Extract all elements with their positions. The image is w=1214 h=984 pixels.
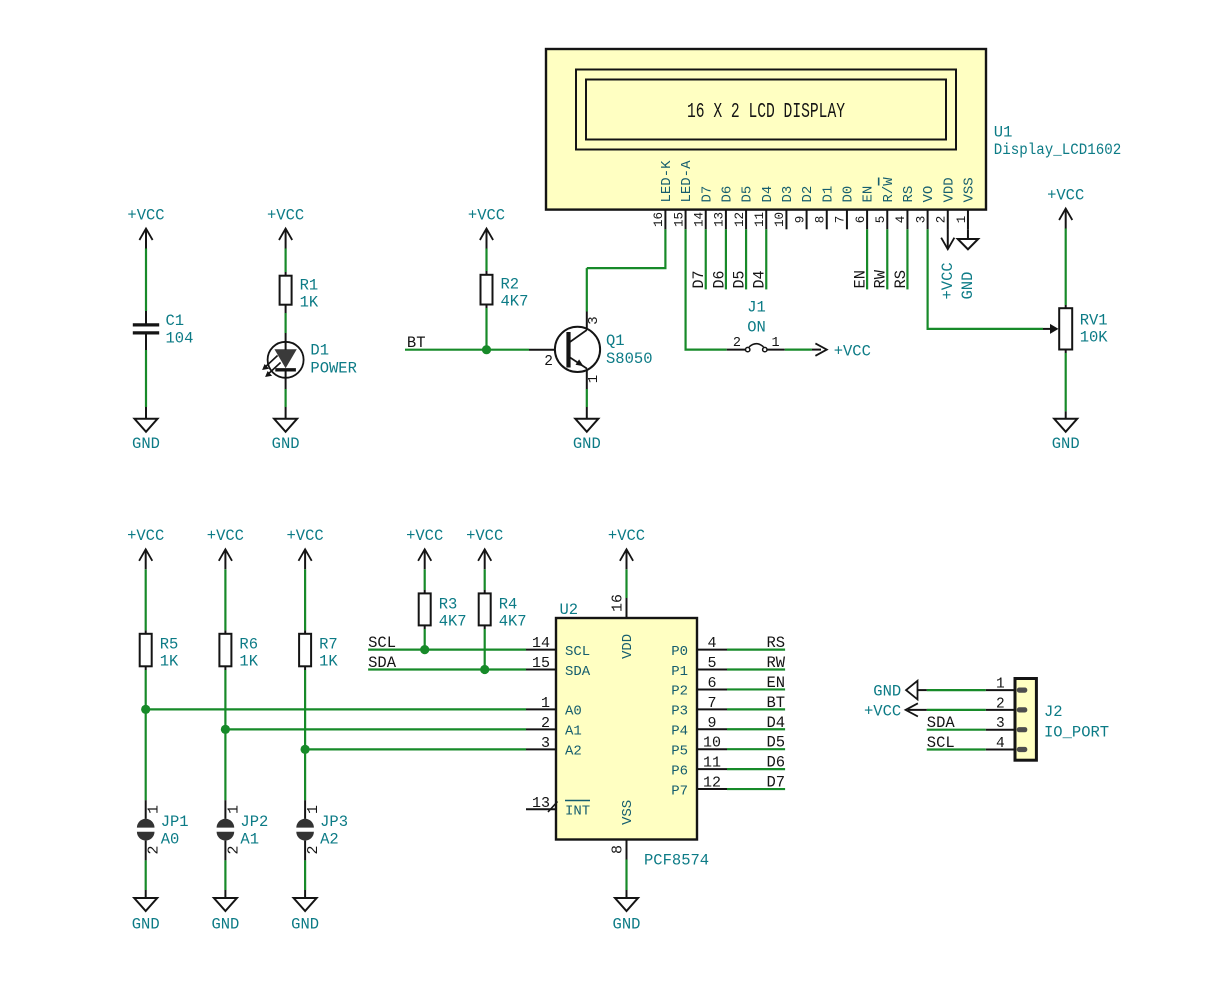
LCD pin 2 stub	[947, 210, 949, 230]
wire RW (pin5)	[886, 229, 888, 289]
svg-text:RS: RS	[892, 270, 910, 289]
svg-text:JP1: JP1	[161, 813, 189, 831]
wire R4 down	[484, 625, 486, 669]
svg-text:3: 3	[996, 716, 1005, 732]
svg-text:A2: A2	[565, 744, 582, 760]
junction R3	[420, 645, 429, 654]
pin number 4 (U2)	[707, 635, 716, 652]
pin name VDD (U2)	[620, 634, 636, 659]
svg-text:LED-A: LED-A	[679, 160, 695, 203]
svg-text:+VCC: +VCC	[608, 527, 645, 545]
net label D6	[710, 271, 728, 289]
pin name A2 (U2)	[565, 744, 582, 760]
svg-text:SDA: SDA	[565, 664, 591, 680]
wire D6 (U2 pin 11)	[727, 768, 785, 770]
wire A2	[305, 748, 526, 750]
svg-text:GND: GND	[272, 435, 300, 453]
svg-text:U2: U2	[560, 601, 579, 619]
svg-text:Q1: Q1	[606, 332, 625, 350]
pin number 13 (U2)	[532, 795, 550, 812]
wire R7 to JP3	[304, 666, 306, 819]
pin number 15 (U2)	[532, 655, 550, 672]
wire RS (U2 pin 4)	[727, 648, 785, 650]
svg-text:A0: A0	[161, 831, 180, 849]
resistor R7	[299, 634, 338, 671]
net label EN (U2)	[766, 674, 785, 692]
svg-text:P2: P2	[671, 684, 688, 700]
LCD pin number 12	[733, 212, 747, 227]
LCD pin 14 stub	[705, 210, 707, 230]
svg-text:P3: P3	[671, 704, 688, 720]
wire BT to Q1 base	[405, 349, 569, 351]
ground (Q1)	[573, 419, 601, 453]
svg-text:+VCC: +VCC	[406, 527, 443, 545]
pin number 9 (U2)	[707, 715, 716, 732]
LCD pin number 11	[753, 212, 767, 227]
svg-text:GND: GND	[1052, 435, 1080, 453]
svg-text:2: 2	[225, 845, 242, 854]
svg-text:2: 2	[541, 715, 550, 732]
svg-text:A1: A1	[565, 724, 582, 740]
svg-text:GND: GND	[211, 916, 239, 934]
net label RS	[892, 270, 910, 289]
LCD pin name D6 (13)	[720, 186, 736, 203]
svg-text:P5: P5	[671, 744, 688, 760]
pin name SCL (U2)	[565, 644, 590, 660]
J2 pin 3 stub	[986, 729, 1015, 731]
label Display_LCD1602	[994, 141, 1122, 159]
pin number 2 (JP3)	[305, 845, 322, 854]
svg-text:+VCC: +VCC	[864, 702, 901, 720]
svg-text:11: 11	[753, 212, 767, 227]
wire J1 to +VCC	[785, 349, 812, 351]
net label SCL (J2)	[927, 734, 955, 752]
label J2	[1044, 703, 1063, 721]
svg-text:14: 14	[693, 212, 707, 227]
wire Q1 collector to LED-K	[587, 229, 666, 311]
U2 pin 6 stub	[697, 688, 727, 690]
pin number 16 (U2)	[610, 594, 627, 612]
svg-text:U1: U1	[994, 124, 1013, 142]
power +VCC (U2 VDD)	[608, 527, 645, 569]
svg-text:RS: RS	[766, 634, 785, 652]
pin number 2 (J1)	[733, 336, 741, 351]
LCD pin number 6	[854, 216, 868, 224]
svg-text:D3: D3	[780, 186, 796, 203]
LCD title text	[687, 101, 845, 124]
U2 pin 4 stub	[697, 649, 727, 651]
J2 pin 2 stub	[986, 709, 1015, 711]
pin number 2 (JP1)	[146, 845, 163, 854]
svg-text:16 X 2 LCD DISPLAY: 16 X 2 LCD DISPLAY	[687, 101, 845, 124]
svg-text:INT: INT	[565, 804, 590, 820]
pin name P7 (U2)	[671, 783, 688, 799]
LCD pin number 16	[652, 212, 666, 227]
svg-text:14: 14	[532, 635, 550, 652]
resistor R5	[140, 634, 179, 671]
pin number 2 (Q1)	[544, 354, 553, 370]
LCD pin number 8	[814, 216, 828, 224]
svg-text:D5: D5	[740, 186, 756, 203]
svg-text:P1: P1	[671, 664, 688, 680]
label U2	[560, 601, 579, 619]
svg-text:PCF8574: PCF8574	[644, 852, 709, 870]
pin number 1 (U2)	[541, 695, 550, 712]
svg-text:9: 9	[793, 216, 807, 224]
wire +VCC to R5	[145, 569, 147, 633]
svg-text:3: 3	[586, 316, 602, 324]
wire +VCC to R2	[485, 249, 487, 275]
power +VCC (R4)	[466, 527, 503, 569]
wire R5 to JP1	[145, 666, 147, 819]
svg-text:POWER: POWER	[310, 360, 357, 378]
resistor R1	[280, 276, 319, 312]
svg-text:+VCC: +VCC	[468, 207, 505, 225]
pin name P1 (U2)	[671, 664, 688, 680]
J2 pin 1 bump	[1017, 688, 1028, 693]
pin number 1 (Q1)	[586, 375, 602, 383]
LCD pin 1 VSS to GND	[967, 229, 969, 239]
svg-text:D4: D4	[760, 186, 776, 203]
LCD pin name R/W (5)	[879, 177, 897, 203]
svg-text:1: 1	[541, 695, 550, 712]
pin number 4 (J2)	[996, 736, 1005, 752]
ground (JP1)	[132, 898, 160, 934]
resistor R2	[481, 275, 529, 311]
wire J2 pin3	[927, 729, 986, 731]
LCD pin number 1	[955, 216, 969, 224]
svg-text:GND: GND	[291, 916, 319, 934]
svg-text:GND: GND	[573, 435, 601, 453]
pin name INT (U2)	[548, 801, 590, 820]
svg-text:RS: RS	[901, 186, 917, 203]
svg-text:7: 7	[707, 695, 716, 712]
svg-text:R/W: R/W	[881, 177, 897, 203]
LCD pin 15 stub	[685, 210, 687, 230]
wire U2 pin8 to GND	[626, 840, 628, 899]
svg-text:6: 6	[854, 216, 868, 224]
svg-text:10K: 10K	[1080, 329, 1109, 347]
svg-text:D4: D4	[766, 714, 785, 732]
LCD pin number 14	[693, 212, 707, 227]
svg-text:SCL: SCL	[565, 644, 590, 660]
svg-text:VSS: VSS	[962, 177, 978, 202]
wire JP3 to GND	[304, 841, 306, 898]
U2 pin 3 stub	[526, 748, 556, 750]
svg-text:+VCC: +VCC	[1047, 187, 1084, 205]
ground (JP3)	[291, 898, 319, 934]
net label SDA	[368, 654, 397, 672]
LCD pin name EN (6)	[861, 186, 877, 203]
pin number 12 (U2)	[703, 775, 721, 792]
svg-text:+VCC: +VCC	[939, 262, 957, 299]
wire +VCC to R7	[304, 569, 306, 633]
svg-text:SDA: SDA	[927, 714, 956, 732]
svg-text:4K7: 4K7	[501, 293, 529, 311]
svg-text:5: 5	[874, 216, 888, 224]
LCD pin 7 stub	[846, 210, 848, 230]
LCD pin 3 stub	[927, 210, 929, 230]
power +VCC (R1)	[267, 207, 304, 249]
junction A2	[301, 745, 310, 754]
wire LED-A (pin15) to J1	[686, 229, 727, 349]
wire D1 to GND	[285, 378, 287, 419]
svg-text:D5: D5	[730, 271, 748, 289]
svg-text:RW: RW	[872, 269, 890, 288]
LCD pin name D4 (11)	[760, 186, 776, 203]
svg-text:S8050: S8050	[606, 350, 653, 368]
pin name P6 (U2)	[671, 763, 688, 779]
pin number 3 (U2)	[541, 735, 550, 752]
connector J2 body	[1015, 679, 1036, 761]
svg-text:2: 2	[305, 845, 322, 854]
svg-text:16: 16	[652, 212, 666, 227]
pin name P4 (U2)	[671, 724, 688, 740]
svg-text:4: 4	[707, 635, 716, 652]
wire +VCC to R3	[424, 569, 426, 593]
pin number 3 (Q1)	[586, 316, 602, 324]
svg-text:P4: P4	[671, 724, 688, 740]
LCD pin name VDD (2)	[941, 177, 957, 202]
svg-text:10: 10	[703, 735, 721, 752]
power label GND (pin1)	[959, 272, 977, 300]
power +VCC (R2)	[468, 207, 505, 249]
LCD pin name D3 (10)	[780, 186, 796, 203]
LCD pin name VSS (1)	[962, 177, 978, 202]
jumper JP1	[137, 813, 189, 849]
net label D4 (U2)	[766, 714, 785, 732]
svg-text:VO: VO	[921, 186, 937, 203]
jumper JP2	[217, 813, 269, 849]
svg-text:6: 6	[707, 675, 716, 692]
wire +VCC to RV1	[1065, 229, 1067, 309]
svg-text:1: 1	[305, 805, 322, 814]
pin number 1 (JP2)	[225, 805, 242, 814]
ground (C1)	[132, 419, 160, 453]
svg-text:16: 16	[610, 594, 627, 612]
pin number 1 (JP3)	[305, 805, 322, 814]
global label GND (J2)	[873, 681, 927, 701]
LCD pin 9 stub	[806, 210, 808, 230]
global label +VCC (J1)	[812, 342, 871, 360]
pin name VSS (U2)	[620, 800, 636, 825]
svg-text:4: 4	[996, 736, 1005, 752]
svg-text:4: 4	[894, 216, 908, 224]
svg-text:GND: GND	[132, 916, 160, 934]
net label SCL	[368, 634, 396, 652]
svg-text:BT: BT	[766, 694, 785, 712]
wire RW (U2 pin 5)	[727, 668, 785, 670]
svg-text:R4: R4	[499, 596, 518, 614]
power +VCC (C1)	[127, 207, 164, 249]
U2 pin 10 stub	[697, 748, 727, 750]
svg-text:JP2: JP2	[240, 813, 268, 831]
svg-text:1K: 1K	[319, 653, 338, 671]
J2 pin 1 stub	[986, 689, 1015, 691]
LCD pin name VO (3)	[921, 186, 937, 203]
svg-text:9: 9	[707, 715, 716, 732]
pin number 2 (JP2)	[225, 845, 242, 854]
svg-text:1K: 1K	[300, 294, 319, 312]
ground (D1)	[272, 419, 300, 453]
LCD pin 11 stub	[765, 210, 767, 230]
LCD pin number 10	[773, 212, 787, 227]
svg-text:2: 2	[733, 336, 741, 351]
svg-text:1: 1	[772, 336, 780, 351]
U2 pin 5 stub	[697, 669, 727, 671]
pin number 8 (U2)	[610, 845, 627, 854]
wire +VCC to R1	[285, 249, 287, 276]
pin name P0 (U2)	[671, 644, 688, 660]
svg-text:D6: D6	[710, 271, 728, 289]
LCD pin 12 stub	[745, 210, 747, 230]
power +VCC (R7)	[286, 527, 323, 569]
svg-text:4K7: 4K7	[499, 613, 527, 631]
svg-text:R7: R7	[319, 636, 338, 654]
resistor R3	[419, 593, 467, 630]
svg-text:D6: D6	[766, 754, 785, 772]
svg-text:GND: GND	[873, 683, 901, 701]
svg-text:D7: D7	[690, 271, 708, 289]
svg-text:13: 13	[532, 795, 550, 812]
svg-text:+VCC: +VCC	[267, 207, 304, 225]
svg-text:EN: EN	[852, 270, 870, 289]
net label SDA (J2)	[927, 714, 956, 732]
net label D7 (U2)	[766, 774, 785, 792]
J2 pin 4 stub	[986, 749, 1015, 751]
net label BT	[407, 334, 426, 352]
LCD pin 8 stub	[826, 210, 828, 230]
svg-text:2: 2	[996, 696, 1005, 712]
svg-text:2: 2	[146, 845, 163, 854]
wire J2 pin4	[927, 748, 986, 750]
junction A0	[141, 705, 150, 714]
U2 pin 15 stub	[526, 669, 556, 671]
svg-text:1: 1	[996, 677, 1005, 693]
svg-text:D4: D4	[751, 271, 769, 289]
svg-text:GND: GND	[613, 916, 641, 934]
svg-text:1: 1	[146, 805, 163, 814]
svg-text:VDD: VDD	[620, 634, 636, 659]
wire D5 (U2 pin 10)	[727, 748, 785, 750]
wire Q1 emitter to GND	[586, 389, 588, 419]
wire EN (pin6)	[866, 229, 868, 289]
junction A1	[221, 725, 230, 734]
junction R4	[480, 665, 489, 674]
pin name P2 (U2)	[671, 684, 688, 700]
pin number 1 (JP1)	[146, 805, 163, 814]
svg-text:IO_PORT: IO_PORT	[1044, 724, 1109, 742]
LCD pin 4 stub	[906, 210, 908, 230]
pin name P5 (U2)	[671, 744, 688, 760]
LCD pin number 7	[834, 216, 848, 224]
wire D4 (pin11)	[765, 229, 767, 289]
LCD pin name D2 (9)	[800, 186, 816, 203]
net label RW (U2)	[766, 654, 785, 672]
pin name SDA (U2)	[565, 664, 591, 680]
pin number 1 (J1)	[772, 336, 780, 351]
svg-text:Display_LCD1602: Display_LCD1602	[994, 141, 1122, 159]
net label D5	[730, 271, 748, 289]
switch J1	[727, 299, 785, 352]
J2 pin 4 bump	[1017, 747, 1028, 752]
wire R6 to JP2	[224, 666, 226, 819]
svg-text:+VCC: +VCC	[286, 527, 323, 545]
svg-text:SCL: SCL	[927, 734, 955, 752]
LCD pin name D7 (14)	[699, 186, 715, 203]
pin number 7 (U2)	[707, 695, 716, 712]
power +VCC (RV1)	[1047, 187, 1084, 229]
wire VO (pin3) to RV1 wiper	[928, 229, 1043, 329]
LCD pin 16 stub	[664, 210, 666, 230]
wire A0	[146, 708, 526, 710]
svg-text:GND: GND	[132, 435, 160, 453]
wire +VCC to C1	[145, 249, 147, 324]
svg-text:D0: D0	[841, 186, 857, 203]
svg-text:+VCC: +VCC	[127, 207, 164, 225]
power label +VCC (pin2)	[939, 262, 957, 299]
J2 pin 2 bump	[1017, 707, 1028, 712]
wire +VCC to R4	[484, 569, 486, 593]
net label D6 (U2)	[766, 754, 785, 772]
pin name P3 (U2)	[671, 704, 688, 720]
pin number 14 (U2)	[532, 635, 550, 652]
svg-text:P6: P6	[671, 763, 688, 779]
svg-text:C1: C1	[166, 312, 185, 330]
net label RW	[872, 269, 890, 288]
svg-text:+VCC: +VCC	[466, 527, 503, 545]
U2 pin 13 stub	[526, 808, 556, 810]
net label D4	[751, 271, 769, 289]
svg-text:R6: R6	[239, 636, 258, 654]
pin name A0 (U2)	[565, 704, 582, 720]
U2 pin 7 stub	[697, 708, 727, 710]
svg-text:2: 2	[544, 354, 553, 370]
RV1 wiper arrow	[1043, 324, 1059, 334]
svg-text:R5: R5	[160, 636, 179, 654]
svg-text:D7: D7	[699, 186, 715, 203]
net label RS (U2)	[766, 634, 785, 652]
wire EN (U2 pin 6)	[727, 688, 785, 690]
svg-text:R3: R3	[439, 596, 458, 614]
svg-text:P0: P0	[671, 644, 688, 660]
power +VCC (R5)	[127, 527, 164, 569]
LCD pin number 3	[914, 216, 928, 224]
svg-text:13: 13	[713, 212, 727, 227]
svg-text:12: 12	[733, 212, 747, 227]
svg-text:7: 7	[834, 216, 848, 224]
wire RS (pin4)	[906, 229, 908, 289]
svg-text:1K: 1K	[239, 653, 258, 671]
resistor R6	[219, 634, 258, 671]
power +VCC (R3)	[406, 527, 443, 569]
LCD pin name D5 (12)	[740, 186, 756, 203]
LCD pin number 4	[894, 216, 908, 224]
svg-text:10: 10	[773, 212, 787, 227]
svg-text:11: 11	[703, 755, 721, 772]
wire SDA	[368, 668, 526, 670]
wire D7 (U2 pin 12)	[727, 788, 785, 790]
pin number 11 (U2)	[703, 755, 721, 772]
wire D6 (pin13)	[725, 229, 727, 289]
wire D4 (U2 pin 9)	[727, 728, 785, 730]
U2 pin 12 stub	[697, 788, 727, 790]
U2 pin 9 stub	[697, 728, 727, 730]
pin number 1 (J2)	[996, 677, 1005, 693]
wire J2 pin2	[927, 709, 986, 711]
LCD pin 5 stub	[886, 210, 888, 230]
svg-text:15: 15	[532, 655, 550, 672]
